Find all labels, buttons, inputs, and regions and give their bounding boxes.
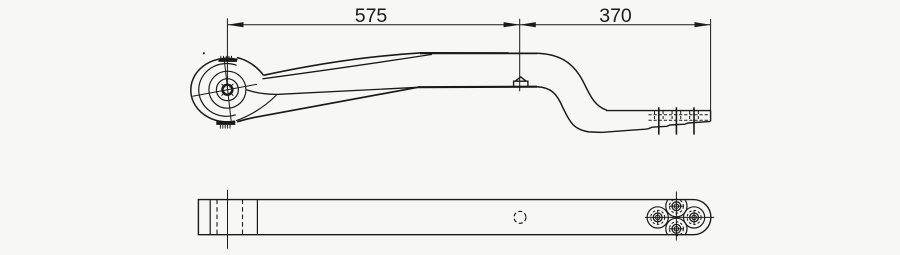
arm middle edge <box>247 87 419 94</box>
hole top <box>669 199 684 213</box>
center bolt dome <box>515 77 526 81</box>
end hole centerline 2 <box>675 107 677 134</box>
bar outline <box>198 200 711 235</box>
arm top inner edge <box>263 54 433 78</box>
small dot upper-left of eye <box>203 52 205 54</box>
bottom S-curve <box>537 87 601 133</box>
end pad boss circles (clipped to pad) <box>647 196 705 240</box>
end hole centerline 3 <box>693 107 695 134</box>
arm top horizontal <box>420 52 537 54</box>
leaf tip inner curve <box>236 95 277 121</box>
side view: bushing sleeve circle <box>216 79 238 101</box>
side view: bore ring <box>222 85 232 95</box>
hole right <box>687 210 701 224</box>
left wrap solid edge 1 <box>209 200 211 235</box>
dimension line 370 <box>520 19 711 111</box>
eye centerline in plan <box>227 190 229 249</box>
plan horizontal centerline <box>645 216 714 218</box>
side view: eye inner wrap arc <box>199 64 237 117</box>
svg-text:370: 370 <box>599 5 632 27</box>
left wrap hidden edge 1 <box>216 200 218 235</box>
side view: bushing outer circle <box>209 71 246 108</box>
bore cross ticks <box>222 84 234 96</box>
svg-text:575: 575 <box>355 5 388 27</box>
arrow right of 575 <box>504 22 520 27</box>
dimension line 575 <box>227 18 519 91</box>
top serration block <box>219 56 238 62</box>
arm middle horizontal <box>418 86 537 89</box>
arm top outline saddle <box>237 58 264 76</box>
center bolt head <box>514 81 528 87</box>
hidden line upper <box>649 114 710 116</box>
left wrap solid edge 2 <box>256 200 258 235</box>
hole hidden walls <box>655 111 699 121</box>
hidden line lower <box>649 119 710 121</box>
bottom serration block <box>216 121 235 129</box>
arrow left of 370 <box>520 22 536 27</box>
side view: eye outer wrap arc <box>191 58 238 122</box>
eye cross spoke <box>193 84 258 96</box>
end hole centerline 1 <box>658 107 660 134</box>
top S-curve <box>537 53 607 110</box>
center hole hidden circle <box>514 211 526 223</box>
right end top edge <box>606 110 711 112</box>
arm bottom edge <box>237 87 418 122</box>
arrow left of 575 <box>227 22 243 27</box>
left wrap hidden edge 2 <box>242 200 244 235</box>
arrow right of 370 <box>695 22 711 27</box>
plan vertical centerline <box>675 192 677 241</box>
hole bottom <box>669 222 684 236</box>
right end face <box>710 111 712 122</box>
right end bottom tapered edge <box>601 121 711 132</box>
arm top outline rising <box>264 53 421 75</box>
eye tilted axis line <box>224 58 231 123</box>
hole left <box>651 210 665 224</box>
